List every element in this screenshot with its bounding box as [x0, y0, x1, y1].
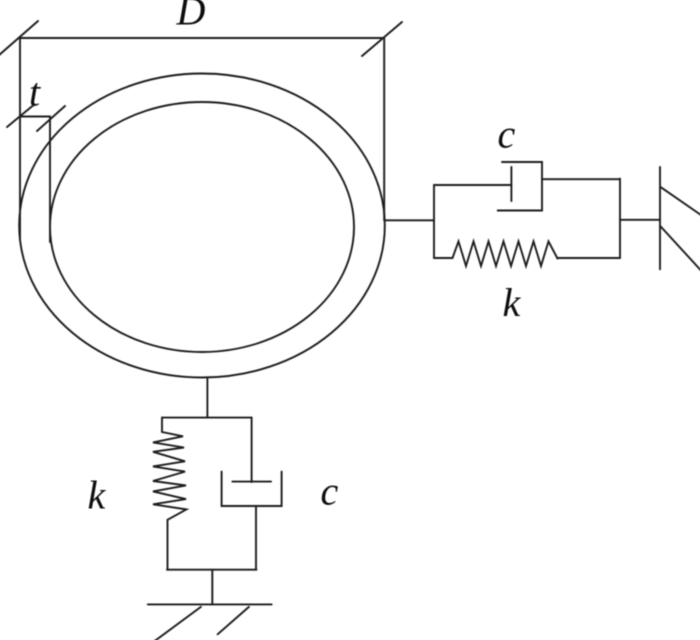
- svg-text:k: k: [503, 280, 522, 325]
- svg-text:k: k: [88, 473, 107, 518]
- svg-text:t: t: [29, 70, 41, 115]
- svg-text:c: c: [321, 469, 339, 514]
- svg-text:D: D: [176, 0, 206, 34]
- svg-text:c: c: [498, 112, 516, 157]
